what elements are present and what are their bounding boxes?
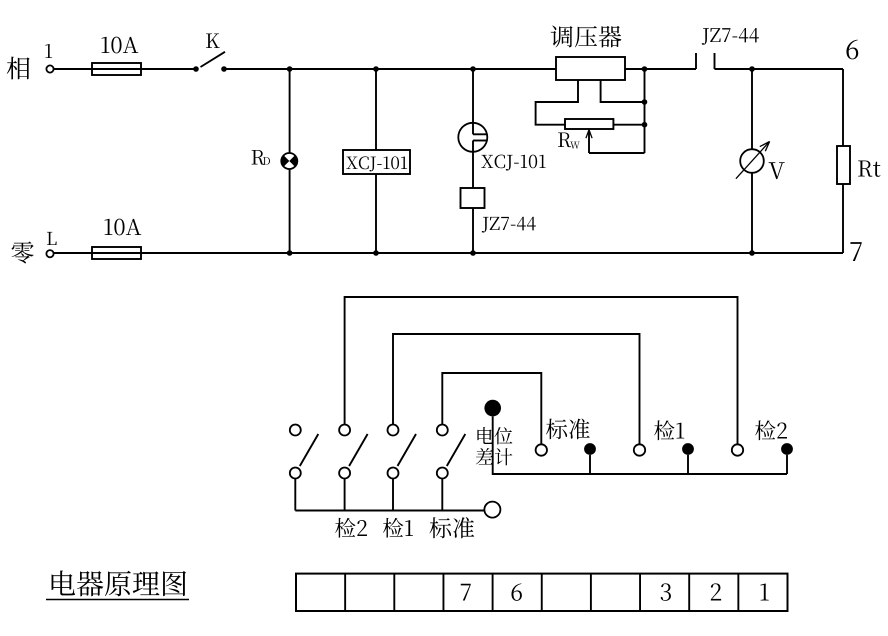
label 10A (FU2) bbox=[105, 219, 142, 236]
junction top Rw feed bbox=[642, 66, 648, 72]
wire right edge bbox=[842, 69, 844, 253]
lamp RD bbox=[281, 153, 297, 169]
coil JZ7-44 (box) bbox=[461, 188, 485, 208]
potentiometer Rw bbox=[565, 119, 613, 129]
label XCJ-101 in box bbox=[346, 156, 407, 171]
label RD bbox=[252, 150, 270, 165]
switch S3 检1 bbox=[388, 425, 417, 511]
switch K bbox=[193, 66, 199, 72]
label node 6 bbox=[846, 40, 858, 60]
wire outer loop (S2 to 检2) bbox=[345, 297, 738, 444]
relay XCJ-101 (box) bbox=[343, 150, 410, 174]
junction top XCJ-101 bbox=[373, 66, 379, 72]
label terminal 7 bbox=[461, 584, 471, 601]
wire RD branch bbox=[289, 69, 291, 253]
node L neutral terminal bbox=[46, 250, 53, 257]
label node 7 bbox=[850, 242, 861, 261]
label Rw bbox=[558, 132, 580, 148]
switch S4 标准 bbox=[437, 425, 466, 511]
junction Rw right bbox=[642, 122, 648, 128]
label K bbox=[206, 33, 220, 48]
terminal strip bbox=[296, 574, 788, 611]
label XCJ-101 bbox=[481, 155, 545, 171]
relay coil XCJ-101 (circle symbol) bbox=[458, 123, 487, 152]
wire regulator secondary right bbox=[601, 80, 645, 102]
wire middle loop (S3 to 检1) bbox=[393, 334, 640, 444]
label 检1 (bottom) bbox=[383, 518, 413, 538]
terminal 检1 (open) bbox=[634, 444, 645, 455]
wire switch bus bbox=[295, 510, 484, 512]
label terminal 2 bbox=[711, 583, 721, 600]
terminal 检2 (open) bbox=[732, 444, 743, 455]
label terminal 1 bbox=[760, 584, 768, 601]
fuse FU1 10A bbox=[92, 63, 141, 75]
wire contact to node 6 bbox=[715, 68, 844, 70]
label 标准 bbox=[546, 418, 590, 439]
label 10A (FU1) bbox=[102, 37, 139, 54]
label 调压器 bbox=[551, 26, 622, 48]
terminal 检2 (closed) bbox=[781, 443, 793, 474]
node 电位差计 bbox=[484, 400, 501, 417]
wire relay branch lower bbox=[472, 208, 474, 253]
contact JZ7-44 (main) bbox=[695, 53, 697, 69]
label 检2 bbox=[755, 420, 787, 440]
label node L bbox=[47, 232, 57, 245]
junction top voltmeter bbox=[749, 66, 755, 72]
label 相 (phase) bbox=[7, 57, 30, 80]
transformer 调压器 box bbox=[556, 57, 625, 80]
wire phase rail middle bbox=[224, 68, 556, 70]
wire inner loop (S4 to 标准) bbox=[442, 373, 541, 444]
wire relay branch middle bbox=[472, 141, 474, 189]
junction top RD bbox=[287, 66, 293, 72]
junction bottom voltmeter bbox=[749, 250, 755, 256]
wire regulator to contact bbox=[625, 68, 696, 70]
wire 电位差计 down and bus bbox=[493, 416, 787, 474]
label 检2 (bottom) bbox=[335, 518, 367, 538]
terminal 标准 (closed) bbox=[584, 443, 596, 474]
node 1 phase terminal bbox=[46, 65, 53, 72]
wire Rw right bbox=[613, 124, 644, 126]
voltmeter V bbox=[736, 142, 770, 179]
junction bottom RD bbox=[287, 250, 293, 256]
wire regulator secondary left bbox=[536, 80, 578, 125]
label 检1 bbox=[654, 420, 684, 440]
label Rt bbox=[858, 160, 880, 176]
junction bottom XCJ-101 bbox=[373, 250, 379, 256]
wire wiper to junction bbox=[589, 152, 645, 154]
label 标准 (bottom) bbox=[430, 517, 475, 538]
junction top relay branch bbox=[470, 66, 476, 72]
switch S2 检2 bbox=[339, 425, 368, 511]
fuse FU2 10A bbox=[92, 247, 141, 259]
wire neutral rail bbox=[54, 252, 843, 254]
label 零 (neutral) bbox=[12, 241, 34, 263]
wire relay branch upper bbox=[472, 69, 474, 134]
label JZ7-44 top bbox=[702, 28, 759, 45]
wire XCJ-101 branch bbox=[375, 69, 377, 253]
resistor Rt bbox=[837, 146, 850, 184]
wire voltmeter branch bbox=[751, 69, 753, 253]
terminal bus output bbox=[484, 502, 500, 518]
wiper arrow Rw bbox=[586, 130, 592, 153]
switch S1 bbox=[290, 425, 319, 511]
label terminal 6 bbox=[511, 583, 521, 600]
label JZ7-44 bbox=[482, 217, 536, 233]
label node 1 bbox=[45, 44, 52, 58]
title 电器原理图 bbox=[46, 570, 189, 599]
label V bbox=[769, 162, 785, 179]
terminal 检1 (closed) bbox=[682, 443, 694, 474]
junction Rw top bbox=[642, 99, 648, 105]
label 电位差计 bbox=[476, 427, 512, 465]
label terminal 3 bbox=[661, 583, 671, 600]
terminal 标准 (open) bbox=[536, 444, 547, 455]
junction bottom relay branch bbox=[470, 250, 476, 256]
wire Rw feed vertical bbox=[644, 69, 646, 153]
wire phase rail left bbox=[54, 68, 196, 70]
